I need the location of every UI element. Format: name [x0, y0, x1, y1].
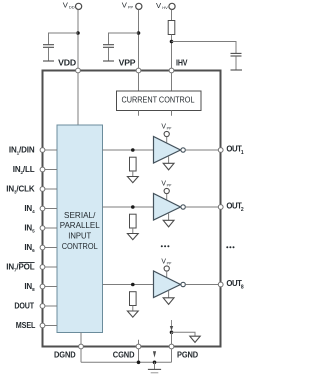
- external ground wire: [81, 361, 172, 363]
- ground buffer1: [163, 163, 174, 170]
- pin IN1/DIN: [9, 146, 57, 156]
- wire junction to capacitor C3: [172, 42, 237, 54]
- svg-text:IHV: IHV: [176, 58, 188, 67]
- wire CGND pin down: [138, 349, 140, 362]
- pin IN6: [24, 243, 57, 253]
- ground R4: [127, 311, 138, 317]
- pin PGND: [169, 344, 198, 359]
- wire input control to buffer U1: [103, 149, 154, 151]
- ground buffer3: [163, 298, 174, 305]
- wire resistor to ground: [132, 306, 134, 312]
- supply terminal buffer2: [164, 188, 169, 193]
- op-amp buffer U2: [154, 194, 181, 221]
- supply terminal VHV: [156, 1, 175, 10]
- capacitor C3: [231, 53, 242, 70]
- node stage2 junction: [131, 205, 135, 209]
- pin IN7/POL: [6, 263, 57, 273]
- wire VPP pin to current control: [138, 73, 140, 91]
- pin IN4: [24, 204, 57, 214]
- svg-text:DGND: DGND: [54, 350, 76, 359]
- arrow into PGND node: [171, 320, 173, 327]
- inverter bubble U3: [181, 282, 185, 286]
- svg-text:OUT: OUT: [226, 279, 242, 288]
- svg-text:IN3/CLK: IN3/CLK: [6, 185, 35, 195]
- wire input control block to DGND pin: [80, 333, 82, 345]
- wire VPP supply down to VPP pin: [138, 10, 140, 69]
- svg-text:CONTROL: CONTROL: [62, 242, 98, 251]
- arrow into ground node: [153, 351, 156, 357]
- node PGND internal junction: [170, 331, 174, 335]
- wire junction to capacitor C1: [49, 33, 79, 44]
- svg-text:1: 1: [241, 150, 244, 156]
- svg-text:DOUT: DOUT: [14, 302, 34, 311]
- svg-text:PARALLEL: PARALLEL: [60, 221, 100, 230]
- pin CGND: [113, 344, 141, 359]
- svg-text:8: 8: [241, 285, 244, 291]
- node VPP cap junction: [137, 31, 141, 35]
- inverter bubble U1: [181, 148, 185, 152]
- node VDD cap junction: [76, 31, 80, 35]
- stub below current control left: [138, 111, 140, 116]
- svg-text:DD: DD: [69, 4, 75, 9]
- wire resistor to ground: [132, 171, 134, 177]
- supply terminal VPP: [122, 1, 142, 10]
- ellipsis between stages: [161, 245, 170, 247]
- node stage1 junction: [131, 148, 135, 152]
- svg-text:IN2/LL: IN2/LL: [13, 165, 35, 175]
- pin DGND: [54, 344, 83, 359]
- svg-text:VDD: VDD: [58, 59, 76, 68]
- pin IN3/CLK: [6, 185, 57, 195]
- svg-text:V: V: [156, 1, 162, 10]
- pin OUT2: [218, 201, 244, 213]
- ground R3: [127, 234, 138, 240]
- node stage3 junction: [131, 283, 135, 287]
- svg-text:PP: PP: [167, 262, 172, 266]
- ground R2: [127, 177, 138, 183]
- wire DGND pin down: [80, 349, 82, 362]
- svg-text:INPUT: INPUT: [68, 232, 91, 241]
- pin IHV: [169, 58, 188, 73]
- wire buffer1 to ground: [168, 156, 170, 163]
- svg-text:IN1/DIN: IN1/DIN: [9, 146, 35, 156]
- resistor R3 pulldown: [130, 214, 137, 228]
- ground bar for C2: [103, 60, 114, 62]
- svg-text:MSEL: MSEL: [16, 321, 36, 330]
- svg-text:CGND: CGND: [113, 350, 135, 359]
- svg-text:SERIAL/: SERIAL/: [64, 211, 96, 220]
- wire resistor to IHV pin: [171, 35, 173, 69]
- block CURRENT CONTROL: [117, 91, 202, 111]
- pin OUT8: [218, 279, 244, 291]
- wire supply to buffer3: [166, 271, 168, 277]
- svg-text:PP: PP: [167, 127, 172, 131]
- pin OUT1: [218, 144, 244, 156]
- pin IN8: [24, 282, 57, 292]
- ground internal PGND: [190, 336, 200, 342]
- wire input control to buffer U2: [103, 206, 154, 208]
- capacitor C2: [103, 45, 114, 61]
- resistor R2 pulldown: [130, 157, 137, 171]
- resistor R4 pulldown: [130, 292, 137, 306]
- wire input control to buffer U3: [103, 284, 154, 286]
- wire VDD pin to input control block: [77, 73, 79, 125]
- ground bar for C3: [231, 69, 243, 71]
- block SERIAL/PARALLEL INPUT CONTROL: [57, 125, 103, 333]
- pin VDD: [58, 59, 80, 73]
- svg-text:V: V: [63, 0, 69, 9]
- wire resistor to ground: [132, 228, 134, 234]
- supply terminal VDD: [63, 0, 82, 9]
- pin VPP: [119, 59, 141, 73]
- stub below current control right: [171, 111, 173, 116]
- node VHV cap junction: [170, 40, 174, 44]
- IC outer box: [43, 71, 221, 347]
- ground external: [148, 362, 161, 373]
- svg-text:VPP: VPP: [119, 59, 137, 68]
- ground buffer2: [163, 220, 174, 227]
- wire junction to internal ground: [172, 332, 196, 336]
- pin MSEL: [16, 321, 57, 330]
- wire bubble to OUT1 pin: [185, 149, 218, 151]
- svg-text:V: V: [122, 1, 128, 10]
- op-amp buffer U1: [154, 137, 181, 164]
- inverter bubble U2: [181, 205, 185, 209]
- wire buffer3 to ground: [168, 291, 170, 298]
- wire IHV pin to current control: [171, 73, 173, 91]
- op-amp buffer U3: [154, 271, 181, 298]
- wire VDD supply down to VDD pin: [77, 10, 79, 69]
- supply terminal buffer1: [164, 131, 169, 136]
- wire VHV supply to resistor R1: [171, 10, 173, 20]
- resistor R1: [168, 21, 175, 35]
- ground bar for C1: [43, 60, 54, 62]
- wire PGND pin down: [171, 349, 173, 362]
- svg-text:IN7/POL: IN7/POL: [6, 263, 35, 273]
- capacitor C1: [43, 45, 54, 61]
- supply terminal buffer3: [164, 266, 169, 271]
- svg-text:HV: HV: [162, 5, 168, 10]
- svg-text:PP: PP: [167, 184, 172, 188]
- wire junction to capacitor C2: [109, 33, 139, 44]
- node CGND on ground wire: [137, 361, 141, 365]
- wire bubble to OUT2 pin: [185, 206, 218, 208]
- svg-text:PGND: PGND: [177, 350, 198, 359]
- wire buffer2 to ground: [168, 213, 170, 220]
- wire supply to buffer1: [166, 137, 168, 143]
- wire supply to buffer2: [166, 194, 168, 200]
- node ground symbol junction: [153, 361, 157, 365]
- svg-text:OUT: OUT: [226, 201, 242, 210]
- stub above CGND pin: [138, 340, 140, 344]
- svg-text:2: 2: [241, 207, 244, 213]
- wire junction to PGND pin: [171, 332, 173, 344]
- svg-text:PP: PP: [128, 5, 134, 10]
- svg-text:OUT: OUT: [226, 144, 242, 153]
- pin IN5: [24, 224, 57, 234]
- pin DOUT: [14, 302, 57, 311]
- wire bubble to OUT8 pin: [185, 284, 218, 286]
- pin IN2/LL: [13, 165, 57, 175]
- svg-text:CURRENT CONTROL: CURRENT CONTROL: [122, 96, 195, 105]
- ellipsis outputs: [226, 246, 234, 248]
